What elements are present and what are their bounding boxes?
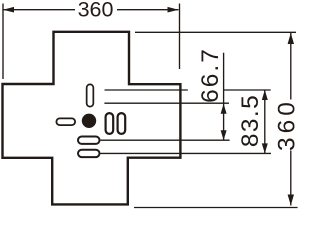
oval A (right of dot) <box>106 113 114 134</box>
right 360 down arrow <box>288 195 294 206</box>
vertical slot (top center) <box>87 84 94 106</box>
83.5 dimension line <box>264 90 266 153</box>
top dimension extension line right <box>179 4 181 70</box>
pill 1 (horizontal slot) <box>78 137 100 144</box>
top dimension right arrow <box>168 7 179 13</box>
black mounting dot <box>82 114 96 128</box>
right dims bottom extension line <box>134 207 298 209</box>
right dims top extension line <box>135 31 296 33</box>
right 360 dimension line <box>290 33 292 206</box>
pill 2 (horizontal slot) <box>78 150 100 157</box>
83.5 up arrow <box>262 90 268 100</box>
svg-text:360: 360 <box>273 98 300 151</box>
top dimension extension line left <box>2 4 4 80</box>
top dimension left arrow <box>3 7 14 13</box>
line A from slot centerline <box>105 89 271 91</box>
cross-shaped mounting hole outline <box>3 32 181 205</box>
right 360 text background <box>278 100 296 151</box>
66.7 dimension line <box>223 53 225 141</box>
line B from slot lower reference <box>104 102 229 104</box>
66.7 up arrow <box>221 104 227 114</box>
svg-text:360: 360 <box>78 0 114 22</box>
svg-text:83.5: 83.5 <box>237 94 264 147</box>
pill2 centerline reference <box>101 152 272 154</box>
oval B <box>118 113 126 134</box>
svg-text:66.7: 66.7 <box>197 47 224 103</box>
pill1 centerline reference <box>101 139 230 141</box>
top dimension line 360 <box>3 9 179 11</box>
83.5 down arrow <box>262 143 268 153</box>
66.7 down arrow <box>221 130 227 140</box>
right 360 up arrow <box>288 33 294 44</box>
small horizontal pill (left of dot) <box>56 118 75 125</box>
